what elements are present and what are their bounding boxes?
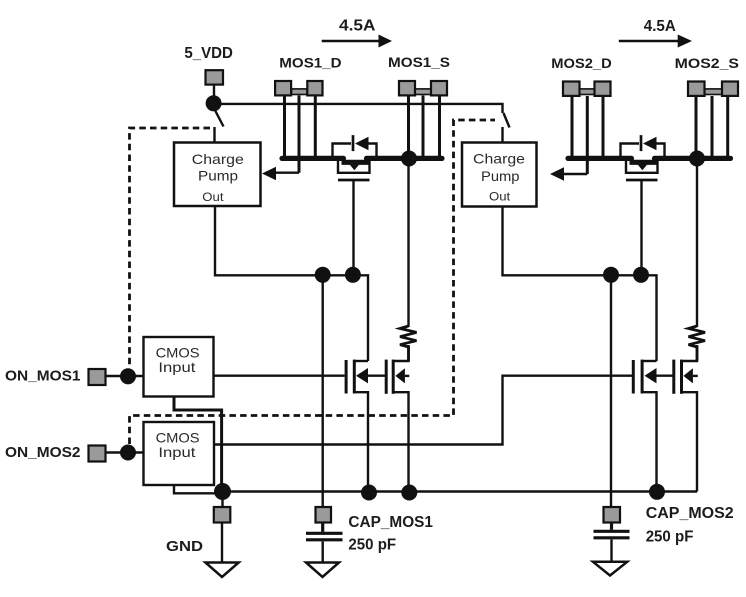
svg-text:Pump: Pump (198, 168, 238, 184)
svg-text:GND: GND (166, 538, 203, 555)
svg-text:CAP_MOS2: CAP_MOS2 (646, 505, 734, 522)
node GND main (214, 483, 231, 500)
power MOSFET Q1 drain-source bar (282, 156, 344, 161)
wire MOS2_D pins (572, 96, 603, 174)
wire MOS1_D pins (285, 96, 316, 173)
wire cap2 feed (610, 275, 612, 507)
svg-text:ON_MOS1: ON_MOS1 (5, 368, 81, 385)
node out2 A (603, 267, 619, 283)
svg-text:MOS1_D: MOS1_D (279, 55, 341, 71)
terminal 5_VDD (206, 70, 224, 84)
terminal ON_MOS1 (89, 369, 106, 385)
svg-text:Out: Out (202, 192, 224, 204)
dashed control line ON_MOS1 to switch S1 (130, 128, 211, 367)
svg-text:4.5A: 4.5A (644, 18, 676, 35)
node ON_MOS2 (120, 445, 136, 461)
wire U4 output (214, 376, 633, 445)
wire gate drive arrow toward U2 (550, 167, 587, 180)
switch S1 blade (215, 110, 224, 127)
terminal MOS1_D (275, 81, 322, 95)
wire ON_MOS2 input (106, 451, 144, 453)
svg-text:MOS1_S: MOS1_S (388, 54, 450, 70)
wire top bus VDD (214, 104, 503, 113)
terminal CAP_MOS1 (316, 507, 332, 523)
charge pump U1 box (174, 143, 261, 207)
svg-text:ON_MOS2: ON_MOS2 (5, 444, 81, 461)
resistor R2 (689, 326, 706, 361)
small MOSFET M1a (346, 360, 354, 394)
node M1a source (361, 485, 377, 501)
node M1b source (401, 485, 417, 501)
wire MOS2_S to resistor R2 (696, 159, 698, 328)
charge pump U2 box (462, 143, 537, 207)
svg-text:MOS2_S: MOS2_S (675, 55, 739, 71)
node out1 A (315, 267, 331, 283)
wire U3 ground tail (174, 397, 222, 492)
CMOS input box U3 (144, 337, 214, 397)
small MOSFET M2a (633, 360, 642, 394)
ground symbol GND (205, 563, 238, 578)
current arrow left (322, 35, 392, 48)
wire ON_MOS1 input (106, 375, 144, 377)
wire MOS2_S pins (696, 96, 728, 159)
wire 5_VDD to node (213, 85, 215, 98)
body diode D2 (621, 135, 665, 157)
power MOSFET Q1 channel (338, 161, 370, 173)
terminal MOS2_D (563, 82, 611, 96)
capacitor C2 (594, 523, 630, 562)
svg-text:250 pF: 250 pF (348, 537, 396, 554)
wire MOS1_S to resistor R1 (407, 159, 409, 328)
wire cap1 feed (322, 275, 324, 507)
wire ground bus (223, 490, 698, 493)
CMOS input box U4 (144, 422, 215, 485)
terminal MOS1_S (399, 81, 447, 95)
body diode D1 (333, 135, 377, 157)
node ON_MOS1 (120, 368, 136, 384)
svg-text:Out: Out (489, 192, 511, 204)
svg-text:250 pF: 250 pF (646, 529, 694, 546)
wire U2 out (503, 207, 612, 276)
wire gate drive arrow into U1 (262, 167, 299, 180)
svg-text:Pump: Pump (481, 168, 520, 184)
wire U4 ground tail (174, 485, 223, 493)
terminal CAP_MOS2 (604, 507, 621, 523)
switch S2 blade (504, 113, 510, 128)
svg-text:4.5A: 4.5A (339, 18, 376, 35)
power MOSFET Q2 drain-source bar (568, 156, 632, 161)
node out1 B (345, 267, 361, 283)
terminal MOS2_S (688, 82, 738, 96)
power MOSFET Q1 gate (338, 180, 370, 275)
svg-text:CAP_MOS1: CAP_MOS1 (348, 514, 433, 531)
current arrow right (619, 35, 692, 48)
node VDD junction (206, 95, 222, 111)
svg-text:Charge: Charge (473, 151, 525, 167)
power MOSFET Q2 channel (626, 161, 658, 173)
terminal GND (214, 507, 231, 523)
wire GND down (221, 523, 223, 563)
wire out1 to M1a drain (323, 275, 368, 361)
terminal ON_MOS2 (89, 446, 106, 462)
svg-text:MOS2_D: MOS2_D (551, 55, 611, 71)
wire GND stub (221, 492, 223, 508)
svg-text:5_VDD: 5_VDD (184, 45, 233, 62)
wire U1 out (215, 206, 323, 275)
svg-text:Charge: Charge (192, 151, 244, 167)
power MOSFET Q2 gate (626, 180, 658, 275)
wire into charge pump 2 (501, 127, 503, 143)
ground symbol C1 (306, 563, 339, 578)
small MOSFET M2b (674, 360, 682, 394)
node M2a source (649, 484, 665, 500)
wire U3 output to gates (214, 375, 345, 377)
small MOSFET M1b (386, 360, 393, 394)
capacitor C1 (306, 523, 343, 563)
node MOS1_S junction (401, 151, 417, 167)
svg-text:Input: Input (158, 444, 195, 460)
wire MOS1_S pins (409, 96, 440, 160)
ground symbol C2 (593, 562, 627, 576)
resistor R1 (400, 326, 417, 361)
svg-text:Input: Input (158, 359, 195, 375)
node out2 B (633, 267, 649, 283)
wire into charge pump 1 (213, 127, 215, 143)
wire out2 to M2a drain (611, 275, 657, 361)
dashed control line ON_MOS2 to switch S2 (130, 120, 496, 444)
node MOS2_S junction (689, 151, 705, 167)
